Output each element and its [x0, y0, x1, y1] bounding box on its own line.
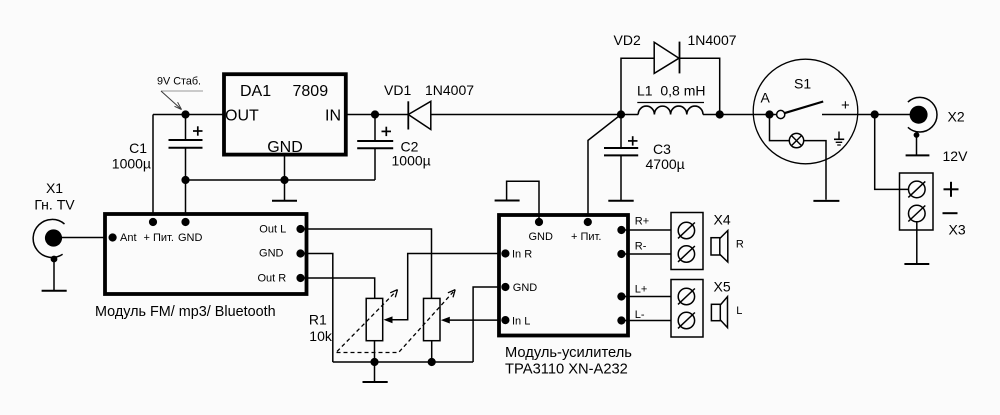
pin Ant: [109, 233, 117, 241]
capacitor C3: [604, 136, 685, 172]
svg-text:+ Пит.: + Пит.: [571, 231, 601, 243]
potentiometer R1b: [424, 298, 441, 340]
svg-text:12V: 12V: [943, 148, 969, 164]
label 9V Стаб.: [157, 76, 203, 110]
wire Out L to pot2: [301, 229, 432, 298]
svg-text:Гн. TV: Гн. TV: [34, 197, 75, 213]
wire In R to pot1 wiper: [391, 254, 505, 320]
module FM/mp3/Bluetooth: [95, 214, 307, 320]
wire FM GND to bus: [301, 254, 333, 363]
pin Out L: [296, 225, 304, 233]
ground bus C1-C2: [186, 179, 376, 181]
svg-text:X1: X1: [46, 180, 63, 196]
svg-text:R-: R-: [635, 240, 647, 252]
pin L+: [617, 292, 625, 300]
node bus C1: [181, 176, 189, 184]
wire to X3: [875, 115, 909, 190]
wire lamp branch: [770, 115, 790, 141]
svg-text:+: +: [841, 97, 850, 114]
speaker L: [711, 297, 742, 328]
svg-text:In R: In R: [512, 248, 532, 260]
inductor L1: [637, 83, 705, 115]
wire pot2 bottom: [431, 341, 433, 362]
svg-text:X4: X4: [714, 212, 731, 228]
wire S1 to X2: [822, 114, 910, 116]
wire node to amp +Пит: [588, 115, 621, 223]
lamp: [789, 133, 803, 147]
connector X1: [33, 180, 75, 291]
svg-text:GND: GND: [178, 232, 203, 244]
wire DA1 GND pin: [284, 157, 286, 201]
terminal X5: [671, 279, 731, 338]
svg-text:1N4007: 1N4007: [688, 32, 737, 48]
svg-text:R+: R+: [635, 215, 649, 227]
svg-text:GND: GND: [529, 231, 554, 243]
wire IN node to C2: [374, 115, 376, 142]
wire C3 to ground: [620, 155, 622, 200]
pin amp GND top: [535, 218, 543, 226]
pin +Пит FM: [149, 218, 157, 226]
pin GND FM right: [296, 249, 304, 257]
node bus DA1 GND: [280, 176, 288, 184]
pin Out R: [296, 274, 304, 282]
svg-text:10k: 10k: [309, 328, 333, 344]
diode VD1: [384, 82, 474, 130]
pin In R: [501, 249, 509, 257]
svg-text:1000µ: 1000µ: [112, 156, 151, 172]
wire Out R to pot1: [301, 278, 375, 298]
pin R-: [617, 250, 625, 258]
wire C2 to bus: [374, 148, 376, 180]
svg-text:R1: R1: [309, 312, 327, 328]
svg-text:C1: C1: [129, 140, 147, 156]
wire +9V down to module: [152, 115, 154, 222]
svg-text:Out R: Out R: [257, 272, 286, 284]
ground X3: [904, 263, 929, 265]
capacitor C1: [112, 126, 203, 171]
svg-text:OUT: OUT: [225, 108, 259, 125]
wire L+ to X5: [621, 296, 678, 298]
ground bus pots: [333, 361, 473, 363]
svg-text:R: R: [736, 239, 744, 251]
diode VD2: [614, 32, 737, 73]
dashed gang link pot2: [337, 290, 456, 353]
svg-text:Out L: Out L: [259, 223, 286, 235]
wire L1 to S1: [703, 114, 777, 116]
wire VD2 top right: [680, 58, 720, 114]
svg-text:A: A: [761, 90, 771, 106]
pin R+: [617, 226, 625, 234]
module amplifier: [499, 215, 632, 378]
svg-text:L+: L+: [635, 284, 648, 296]
svg-text:GND: GND: [267, 139, 303, 156]
switch lever: [784, 102, 823, 114]
node S1 input: [765, 110, 773, 118]
svg-text:X2: X2: [948, 109, 965, 125]
node 9V: [181, 110, 189, 118]
pin L-: [617, 316, 625, 324]
wire In L to pot2 wiper: [449, 319, 506, 321]
svg-text:L: L: [736, 305, 742, 317]
wire VD2 top left: [621, 58, 654, 114]
wire C1 to module GND: [185, 148, 187, 221]
wire node to C1: [185, 115, 187, 141]
svg-text:GND: GND: [259, 248, 284, 260]
svg-text:+ Пит.: + Пит.: [144, 232, 174, 244]
wire lamp to ground: [804, 141, 826, 200]
node pot2 bus: [428, 358, 436, 366]
ground lamp: [813, 200, 839, 202]
ground amp top: [495, 200, 520, 202]
svg-text:DA1: DA1: [240, 83, 271, 100]
regulator DA1: [224, 74, 346, 156]
wire IN to VD1: [346, 114, 408, 116]
wire R+ to X4: [621, 229, 678, 231]
wire X1 to module: [61, 237, 104, 239]
potentiometer R1a: [366, 298, 383, 340]
svg-text:IN: IN: [325, 108, 341, 125]
svg-text:Модуль-усилитель: Модуль-усилитель: [505, 345, 632, 361]
svg-text:VD2: VD2: [614, 32, 641, 48]
node L1 right: [716, 110, 724, 118]
wire amp GND to bus: [473, 287, 505, 362]
svg-text:L-: L-: [635, 309, 645, 321]
svg-text:4700µ: 4700µ: [646, 156, 685, 172]
node pot1 bus: [370, 358, 378, 366]
wire L- to X5: [621, 320, 678, 322]
node L1 left: [617, 110, 625, 118]
pin amp +Пит: [584, 218, 592, 226]
dashed gang link pot1: [337, 290, 398, 352]
ground DA1: [272, 200, 297, 202]
ground pots: [374, 362, 376, 382]
wire OUT rail: [153, 114, 224, 116]
svg-text:Модуль FM/ mp3/ Bluetooth: Модуль FM/ mp3/ Bluetooth: [95, 304, 276, 320]
switch S1: [753, 59, 858, 201]
svg-text:X5: X5: [714, 279, 731, 295]
pin amp GND left: [501, 283, 509, 291]
chassis symbol: [838, 132, 840, 140]
svg-text:S1: S1: [794, 76, 811, 92]
capacitor C2: [357, 127, 431, 169]
svg-text:Ant: Ant: [120, 232, 137, 244]
svg-text:GND: GND: [513, 282, 538, 294]
node IN/C2: [371, 110, 379, 118]
svg-text:ТРА3110 XN-A232: ТРА3110 XN-A232: [505, 362, 628, 378]
pin GND FM top: [181, 218, 189, 226]
pin In L: [501, 316, 509, 324]
speaker R: [711, 231, 744, 263]
wire node to C3: [620, 115, 622, 149]
wire R- to X4: [621, 253, 678, 255]
connector X2: [906, 97, 968, 164]
svg-text:1N4007: 1N4007: [425, 82, 474, 98]
wire X3 to ground: [916, 222, 918, 264]
svg-text:9V Стаб.: 9V Стаб.: [157, 76, 201, 88]
svg-text:7809: 7809: [293, 83, 329, 100]
terminal X3: [900, 173, 966, 238]
wire pot1 bottom: [374, 341, 376, 362]
svg-text:L1 0,8 mH: L1 0,8 mH: [637, 83, 705, 99]
node X2 branch: [871, 110, 879, 118]
svg-text:X3: X3: [949, 222, 966, 238]
svg-text:C3: C3: [653, 141, 671, 157]
svg-text:VD1: VD1: [384, 82, 411, 98]
svg-text:In L: In L: [512, 315, 530, 327]
wire VD1 to L1: [431, 114, 638, 116]
terminal X4: [671, 212, 731, 270]
ground C3: [608, 200, 633, 202]
wire amp GND top to ground: [507, 181, 539, 222]
svg-text:1000µ: 1000µ: [392, 152, 431, 168]
